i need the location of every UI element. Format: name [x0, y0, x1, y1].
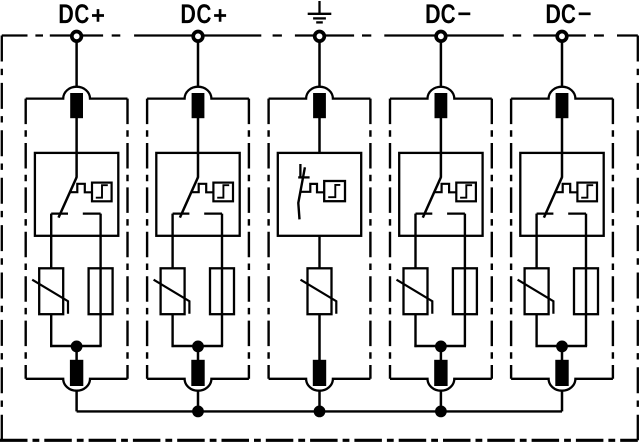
wire junction to plug module 1 [75, 346, 78, 361]
spark gap electrode stub [299, 164, 301, 177]
status indicator box module 4 [456, 183, 476, 202]
junction node module 1 [71, 341, 83, 353]
plug-in contact bottom module 1 [70, 360, 83, 386]
step function symbol module 2 [217, 185, 229, 198]
plug-in contact bottom module 4 [434, 360, 447, 386]
wire switch to varistor module 5 [535, 214, 537, 269]
disconnector switch blade module 2 [180, 177, 198, 217]
wire plug to protection box module 2 [197, 118, 200, 154]
module 4 bottom border with plug recess [390, 379, 492, 391]
spark gap blade [298, 167, 305, 219]
wire plug to protection box module 4 [440, 118, 443, 154]
wire varistor to junction module 2 [171, 314, 173, 347]
module 5 left border (dash-dot) [510, 99, 512, 379]
disconnector wire module 5 [561, 154, 564, 178]
bus junction node 4 [435, 406, 447, 418]
plug-in contact top module 2 [192, 93, 205, 118]
status linkage module 3 [300, 184, 324, 192]
module 3 right border (dash-dot) [369, 99, 371, 379]
module 2 right border (dash-dot) [248, 99, 250, 379]
protection element box module 4 [399, 153, 482, 236]
wire plug to bus module 2 [197, 391, 200, 411]
plug-in contact bottom module 3 [313, 360, 326, 386]
enclosure border right (dash-dot) [637, 36, 639, 441]
module 1 top border with plug recess [26, 87, 128, 99]
varistor module 3 [301, 268, 337, 314]
wire varistor to plug module 3 [318, 314, 321, 360]
wire switch to varistor module 4 [414, 214, 416, 269]
protection element box module 1 [35, 153, 118, 236]
status indicator box module 2 [213, 183, 233, 202]
switch fixed contact right module 2 [204, 212, 222, 214]
disconnector wire module 4 [440, 154, 443, 178]
spark gap contact tick [298, 176, 309, 178]
enclosure border top (dash-dot) [2, 34, 638, 36]
switch fixed contact left module 4 [416, 212, 433, 214]
fuse module 2 [210, 268, 234, 314]
step function symbol module 3 [328, 185, 340, 197]
switch fixed contact right module 5 [568, 212, 586, 214]
wire varistor to junction module 5 [535, 314, 537, 347]
varistor module 1 [32, 268, 68, 314]
wire fuse branch module 1 [99, 214, 101, 346]
step function symbol module 4 [460, 185, 472, 198]
disconnector switch blade module 4 [423, 177, 441, 217]
disconnector switch blade module 5 [544, 177, 562, 217]
wire plug to bus module 4 [440, 391, 443, 411]
wire fuse branch module 5 [585, 214, 587, 346]
module 1 left border (dash-dot) [25, 99, 27, 379]
wire switch to varistor module 1 [50, 214, 52, 269]
terminal DC– X4 [436, 32, 446, 42]
module 2 left border (dash-dot) [146, 99, 148, 379]
terminal PE X3 [315, 32, 325, 42]
label DC+ terminal 2 [182, 4, 226, 23]
wire branch junction module 5 [536, 345, 588, 347]
plug-in contact top module 1 [70, 93, 83, 118]
status linkage module 4 [434, 184, 456, 193]
bus junction node 2 [192, 406, 204, 418]
wire varistor to junction module 4 [414, 314, 416, 347]
wire plug to protection box module 3 [318, 118, 321, 154]
terminal DC– X5 [557, 32, 567, 42]
wire terminal 4 to plug [440, 42, 443, 88]
module 4 right border (dash-dot) [491, 99, 493, 379]
module 1 right border (dash-dot) [126, 99, 128, 379]
module 1 bottom border with plug recess [26, 379, 128, 391]
wire varistor to junction module 1 [50, 314, 52, 347]
status linkage module 5 [555, 184, 577, 193]
switch fixed contact right module 4 [447, 212, 465, 214]
wire fuse branch module 4 [464, 214, 466, 346]
module 4 top border with plug recess [390, 87, 492, 99]
protection element box module 2 [156, 153, 239, 236]
step function symbol module 1 [96, 185, 108, 198]
label DC– terminal 5 [547, 4, 591, 23]
wire box to varistor module 3 [318, 236, 320, 268]
wire plug to protection box module 1 [75, 118, 78, 154]
disconnector wire module 1 [75, 154, 78, 178]
module 5 bottom border with plug recess [511, 379, 613, 391]
junction node module 2 [192, 341, 204, 353]
disconnector wire module 2 [197, 154, 200, 178]
wire plug to bus module 3 [318, 391, 321, 411]
plug-in contact top module 5 [556, 93, 569, 118]
wire terminal 3 to plug [318, 42, 321, 88]
wire junction to plug module 2 [197, 346, 200, 361]
wire branch junction module 1 [50, 345, 102, 347]
enclosure border left (dash-dot) [1, 36, 3, 441]
plug-in contact bottom module 5 [555, 360, 568, 386]
wire fuse branch module 2 [221, 214, 223, 346]
bus junction node 3 [314, 406, 326, 418]
fuse module 5 [574, 268, 598, 314]
plug-in contact bottom module 2 [191, 360, 204, 386]
protection element box module 3 [278, 153, 361, 236]
varistor module 5 [518, 268, 554, 314]
module 5 top border with plug recess [511, 87, 613, 99]
wire terminal 1 to plug [75, 42, 78, 88]
wire junction to plug module 5 [561, 346, 564, 361]
status linkage module 1 [70, 184, 92, 193]
status indicator box module 3 [324, 181, 345, 201]
switch fixed contact right module 1 [83, 212, 101, 214]
module 2 bottom border with plug recess [147, 379, 249, 391]
disconnector switch blade module 1 [59, 177, 77, 217]
switch fixed contact left module 1 [51, 212, 68, 214]
status indicator box module 1 [92, 183, 112, 202]
plug-in contact top module 4 [435, 93, 448, 118]
fuse module 4 [453, 268, 477, 314]
wire branch junction module 4 [414, 345, 466, 347]
wire plug to bus module 5 [561, 391, 564, 411]
protection element box module 5 [520, 153, 603, 236]
switch fixed contact left module 2 [173, 212, 190, 214]
step function symbol module 5 [581, 185, 593, 198]
earth ground symbol [308, 1, 332, 22]
wire branch junction module 2 [172, 345, 224, 347]
module 5 right border (dash-dot) [612, 99, 614, 379]
module 3 bottom border with plug recess [269, 379, 371, 391]
wire junction to plug module 4 [440, 346, 443, 361]
wire plug to bus module 1 [75, 391, 78, 411]
module 3 top border with plug recess [269, 87, 371, 99]
varistor module 4 [397, 268, 433, 314]
wire terminal 2 to plug [197, 42, 200, 88]
PE bus wire [77, 410, 562, 412]
plug-in contact top module 3 [313, 93, 326, 118]
wire switch to varistor module 2 [171, 214, 173, 269]
switch fixed contact left module 5 [537, 212, 554, 214]
label DC– terminal 4 [426, 4, 470, 23]
wire terminal 5 to plug [561, 42, 564, 88]
status linkage module 2 [191, 184, 213, 193]
junction node module 4 [435, 341, 447, 353]
enclosure border bottom (dash-dot) [0, 439, 638, 442]
label DC+ terminal 1 [60, 4, 104, 23]
terminal DC+ X1 [72, 32, 82, 42]
junction node module 5 [556, 341, 568, 353]
terminal DC+ X2 [193, 32, 203, 42]
module 2 top border with plug recess [147, 87, 249, 99]
module 4 left border (dash-dot) [389, 99, 391, 379]
fuse module 1 [89, 268, 113, 314]
module 3 left border (dash-dot) [267, 99, 269, 379]
status indicator box module 5 [577, 183, 597, 202]
varistor module 2 [154, 268, 190, 314]
wire plug to protection box module 5 [561, 118, 564, 154]
